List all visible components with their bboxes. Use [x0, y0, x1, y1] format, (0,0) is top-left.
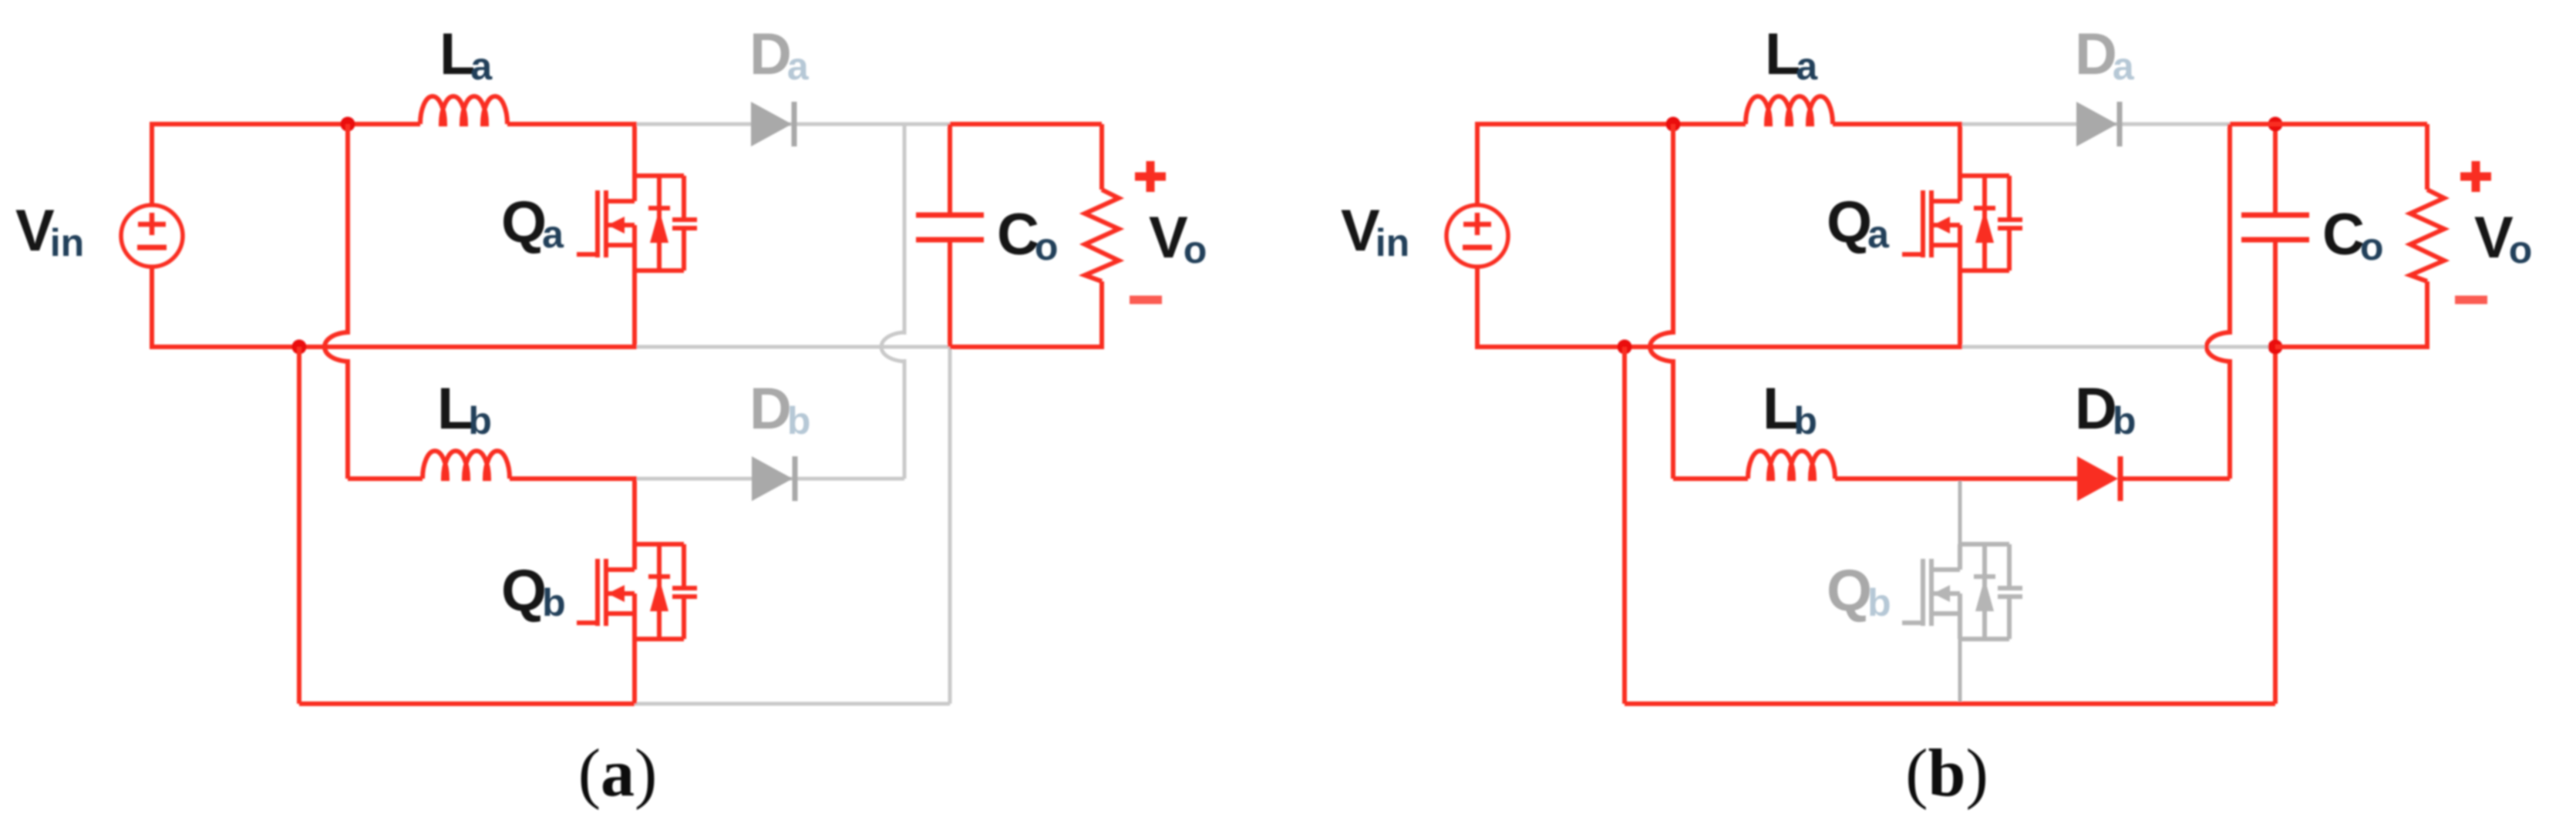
svg-text:b: b [787, 399, 811, 442]
svg-text:D: D [749, 22, 792, 87]
svg-text:b: b [542, 581, 566, 624]
svg-text:o: o [2360, 225, 2384, 268]
svg-text:a: a [787, 45, 810, 88]
svg-text:a: a [1867, 213, 1890, 256]
svg-text:V: V [1149, 205, 1188, 271]
svg-text:Q: Q [1827, 558, 1872, 624]
svg-text:b: b [1867, 581, 1891, 624]
svg-text:C: C [997, 202, 1039, 267]
svg-text:Q: Q [1827, 190, 1872, 255]
svg-text:V: V [2474, 205, 2514, 271]
svg-text:(b): (b) [1905, 736, 1988, 811]
svg-text:Q: Q [501, 190, 547, 255]
svg-text:in: in [1376, 221, 1409, 264]
svg-text:a: a [1796, 45, 1818, 88]
svg-text:o: o [1035, 225, 1059, 268]
svg-text:D: D [749, 376, 792, 442]
svg-text:C: C [2322, 202, 2365, 267]
svg-text:a: a [470, 45, 493, 88]
svg-text:b: b [2113, 399, 2137, 442]
svg-text:a: a [542, 213, 564, 256]
svg-text:D: D [2075, 376, 2117, 442]
svg-text:o: o [1184, 228, 1207, 271]
svg-text:b: b [1793, 399, 1817, 442]
svg-text:in: in [50, 221, 84, 264]
svg-text:Q: Q [501, 558, 547, 624]
svg-text:o: o [2509, 228, 2533, 271]
svg-text:a: a [2113, 45, 2135, 88]
svg-text:b: b [468, 399, 492, 442]
svg-text:V: V [1341, 198, 1380, 264]
svg-text:D: D [2075, 22, 2117, 87]
svg-text:(a): (a) [578, 736, 658, 811]
svg-text:V: V [15, 198, 55, 264]
